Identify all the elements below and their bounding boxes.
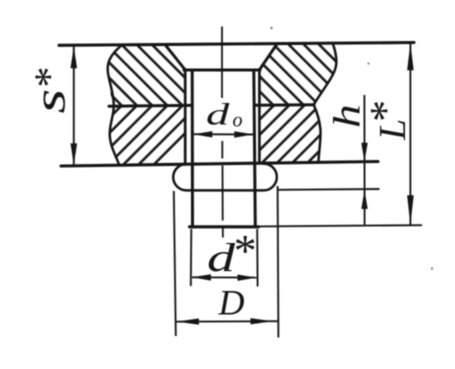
left broken (wavy) edge	[108, 45, 122, 165]
countersink chamfer right	[259, 45, 276, 70]
interface line left	[109, 104, 191, 108]
d* extension right	[256, 229, 258, 287]
D arrow left	[177, 318, 199, 324]
hole wall left	[184, 70, 187, 164]
bottom surface line	[61, 162, 378, 167]
dimension lines	[74, 43, 422, 338]
L* bottom line from shank end	[259, 225, 423, 226]
s* arrow down	[71, 143, 78, 165]
h arrow up	[361, 190, 367, 209]
right broken (wavy) edge	[314, 44, 337, 162]
centerline	[221, 27, 224, 238]
closing head (stadium)	[173, 164, 277, 191]
hatching bottom plate (/ direction)	[45, 102, 217, 168]
hatching top plate (\ direction)	[42, 41, 400, 168]
svg-text:o: o	[233, 110, 243, 132]
D extension left	[174, 191, 176, 336]
shank left	[191, 70, 194, 227]
svg-text:*: *	[361, 102, 410, 124]
top surface line	[59, 43, 414, 46]
arrowheads	[71, 43, 414, 325]
scan specks	[270, 27, 272, 29]
d* extension left	[190, 229, 193, 286]
L* dimension line	[409, 43, 411, 226]
D extension right	[277, 186, 280, 338]
L* arrow down	[407, 195, 414, 225]
d_o dimension line	[193, 133, 253, 135]
h lower extension line	[279, 188, 380, 191]
svg-text:s: s	[25, 89, 74, 114]
head/shank transition line	[184, 68, 260, 71]
D arrow right	[251, 318, 273, 324]
main object lines	[59, 43, 414, 227]
svg-text:d: d	[206, 97, 230, 132]
shank bottom end	[190, 225, 259, 228]
hole wall right	[258, 70, 261, 163]
svg-text:*: *	[28, 69, 74, 90]
d* dimension line	[192, 276, 257, 278]
d_o arrow left	[193, 131, 212, 137]
interface line right	[255, 103, 314, 107]
L* arrow up	[407, 43, 414, 70]
D dimension line	[177, 320, 278, 323]
d* arrow right	[238, 275, 257, 281]
svg-text:*: *	[232, 225, 255, 276]
countersink chamfer left	[166, 45, 186, 70]
s* dimension line	[73, 46, 75, 166]
h dimension line	[363, 95, 365, 225]
svg-text:D: D	[218, 283, 245, 323]
shank right	[254, 70, 256, 227]
d_o arrow right	[234, 131, 253, 137]
d* arrow left	[192, 274, 211, 280]
s* arrow up	[71, 46, 78, 68]
h arrow down	[361, 143, 367, 162]
